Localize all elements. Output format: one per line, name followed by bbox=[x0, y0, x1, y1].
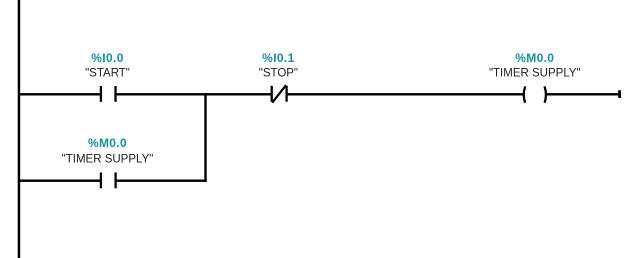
wire: coil to right end bbox=[546, 93, 619, 95]
coil %M0.0 "TIMER SUPPLY" bbox=[524, 86, 546, 102]
svg-text:%M0.0: %M0.0 bbox=[88, 136, 127, 150]
wire: branch vertical drop at junction bbox=[204, 93, 206, 182]
wire: START contact to STOP contact bbox=[116, 93, 272, 95]
wire: STOP contact to coil bbox=[287, 93, 524, 95]
label "START" bbox=[85, 67, 130, 79]
label %M0.0 (branch contact) bbox=[88, 136, 127, 150]
left power rail bbox=[18, 0, 21, 258]
label "TIMER SUPPLY" (branch contact) bbox=[62, 154, 154, 166]
svg-text:"TIMER SUPPLY": "TIMER SUPPLY" bbox=[489, 67, 581, 79]
wire: branch rung, rail to branch contact bbox=[18, 180, 101, 182]
node: branch junction on main rung bbox=[204, 93, 206, 95]
svg-text:"START": "START" bbox=[85, 67, 130, 79]
right rail end tick bbox=[618, 90, 621, 98]
label %M0.0 (coil) bbox=[515, 51, 554, 65]
contact %I0.1 "STOP" (normally closed) bbox=[271, 85, 288, 103]
label %I0.1 bbox=[262, 51, 294, 65]
svg-text:%M0.0: %M0.0 bbox=[515, 51, 554, 65]
label "TIMER SUPPLY" (coil) bbox=[489, 67, 581, 79]
svg-text:"STOP": "STOP" bbox=[259, 67, 298, 79]
contact %I0.0 "START" (normally open) bbox=[100, 86, 117, 102]
svg-text:%I0.1: %I0.1 bbox=[262, 51, 294, 65]
wire: branch contact to junction vertical bbox=[116, 180, 207, 182]
svg-text:%I0.0: %I0.0 bbox=[91, 51, 123, 65]
wire: rail to START contact (main rung) bbox=[18, 93, 101, 95]
label %I0.0 bbox=[91, 51, 123, 65]
label "STOP" bbox=[259, 67, 298, 79]
contact %M0.0 "TIMER SUPPLY" (normally open, branch) bbox=[100, 173, 117, 189]
svg-text:"TIMER SUPPLY": "TIMER SUPPLY" bbox=[62, 154, 154, 166]
